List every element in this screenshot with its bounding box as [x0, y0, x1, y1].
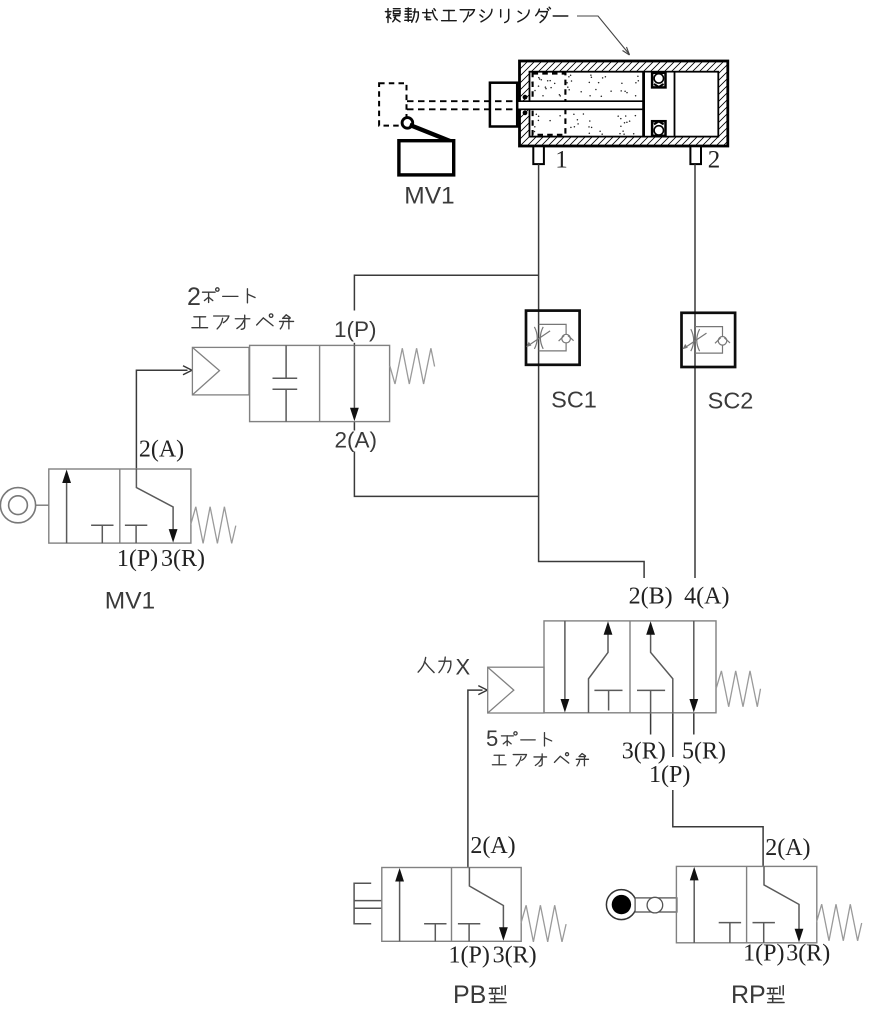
svg-text:4(A): 4(A): [684, 584, 729, 610]
2-port valve label エアオペ弁: [192, 317, 208, 328]
valve PB blocked port T2: [458, 923, 480, 925]
wire: 2-port valve 2(A) bypass bottom: [353, 422, 355, 431]
svg-text:1(P): 1(P): [449, 943, 490, 969]
svg-text:2(A): 2(A): [139, 437, 184, 463]
svg-text:1(P): 1(P): [117, 546, 158, 572]
svg-text:2: 2: [708, 147, 721, 174]
svg-text:1: 1: [555, 147, 568, 174]
svg-text:2(A): 2(A): [765, 835, 810, 861]
speed controller SC1 box: [526, 311, 580, 365]
limit switch MV1 lever: [410, 125, 450, 141]
svg-text:MV1: MV1: [105, 588, 155, 615]
valve RP blocked port T1: [719, 922, 741, 924]
valve PB return spring: [521, 905, 566, 942]
svg-text:2(A): 2(A): [335, 428, 378, 453]
valve MV1 body: [49, 469, 191, 543]
wire: MV1 valve 2(A) to 2-port pilot: [136, 370, 187, 469]
piston: [644, 73, 675, 136]
svg-text:1(P): 1(P): [649, 762, 690, 788]
2-port valve spring: [390, 348, 435, 384]
5-port right square: up flow path 1(P)->4(A): [651, 634, 673, 713]
wire: 5-port 3(R) stub: [650, 713, 652, 735]
2-port valve open position flow arrow: [353, 345, 355, 408]
5-port valve pilot: [488, 667, 544, 713]
rod coupling block: [490, 83, 517, 127]
phantom rod (dashed lines): [407, 100, 516, 102]
5-port left square: down flow arrow: [564, 621, 566, 700]
valve RP body: [676, 866, 816, 942]
svg-text:MV1: MV1: [404, 183, 454, 210]
label エアオペ弁: [492, 755, 506, 765]
svg-text:X: X: [456, 655, 471, 680]
SC1 check valve bypass loop: [539, 324, 567, 351]
5-port left square: up flow path to 2(B): [589, 634, 609, 713]
svg-text:2(A): 2(A): [470, 833, 515, 859]
svg-text:2: 2: [187, 283, 201, 311]
air stipple in left chamber: [531, 74, 639, 135]
valve RP exhaust path arrow down: [764, 866, 799, 929]
SC1 adjust arrow: [530, 331, 550, 345]
SC2 check valve bypass loop: [695, 327, 723, 354]
valve RP blocked port T2: [753, 922, 775, 924]
5-port right square: down flow arrow 5(R): [693, 621, 695, 700]
svg-text:SC1: SC1: [551, 387, 597, 413]
2-port valve body: [250, 345, 390, 421]
wire: cylinder port2 down through SC2 to 4(A): [694, 164, 696, 578]
piston seal gland top: [652, 73, 665, 88]
valve PB blocked port T1: [424, 923, 446, 925]
title label 複動式エアシリンダー: [385, 9, 400, 23]
5-port valve body: [544, 621, 716, 713]
RP valve roller-lever actuator: [606, 890, 636, 920]
limit switch MV1 pivot roller: [402, 118, 413, 129]
limit switch MV1 body: [399, 141, 454, 175]
svg-text:3(R): 3(R): [161, 546, 205, 572]
SC2 adjust arrow: [687, 333, 707, 347]
SC2 throttle arcs: [691, 329, 694, 351]
svg-text:RP: RP: [731, 981, 766, 1009]
valve RP left-square flow arrow up: [693, 878, 695, 942]
svg-text:3(R): 3(R): [493, 943, 537, 969]
leader line to cylinder: [577, 16, 630, 55]
svg-text:3(R): 3(R): [786, 941, 830, 967]
double-acting air cylinder outer shell: [520, 61, 728, 146]
cylinder port stub 1: [533, 146, 544, 164]
valve MV1 roller actuator: [0, 488, 35, 523]
phantom piston position (dashed): [533, 74, 566, 135]
svg-text:5(R): 5(R): [682, 739, 726, 765]
valve MV1 exhaust path arrow down: [136, 469, 173, 530]
cylinder wall hatching: [432, 58, 832, 150]
cylinder port stub 2: [690, 146, 701, 164]
wire: 5-port 1(P) down to RP valve 2(A): [672, 713, 674, 757]
5-port right square: blocked T: [637, 690, 665, 712]
2-port valve pilot: [192, 347, 249, 395]
wire: cylinder port1 down through SC1 to 2(B): [539, 164, 645, 578]
5-port left square: blocked T: [594, 690, 622, 710]
cylinder bore (inner cavity): [530, 72, 719, 137]
valve MV1 left-square flow arrow up: [66, 481, 68, 543]
label 入力X: [418, 657, 434, 672]
phantom rod-end plate (dashed square): [379, 83, 406, 125]
wire: 5-port 5(R) stub: [693, 713, 695, 735]
valve MV1 blocked port T2: [125, 524, 147, 526]
piston rod: [514, 102, 643, 109]
SC1 throttle arcs: [534, 327, 537, 349]
svg-text:1(P): 1(P): [743, 941, 784, 967]
speed controller SC2 box: [682, 313, 736, 367]
wire: 2-port valve 1(P) bypass top: [354, 275, 538, 310]
valve MV1 blocked port T1: [91, 524, 113, 526]
PB valve push button actuator: [354, 883, 382, 924]
rod seal dots: [523, 95, 528, 100]
valve RP return spring: [817, 904, 862, 941]
svg-text:1(P): 1(P): [334, 317, 377, 342]
valve PB exhaust path arrow down: [469, 868, 503, 929]
svg-text:SC2: SC2: [708, 388, 754, 414]
valve PB body: [382, 868, 521, 942]
wire: input X down to PB valve 2(A): [468, 690, 483, 867]
piston seal gland bottom: [652, 121, 665, 136]
svg-text:3(R): 3(R): [622, 739, 666, 765]
valve MV1 return spring: [191, 507, 236, 544]
valve PB left-square flow arrow up: [399, 880, 401, 942]
svg-text:5: 5: [486, 726, 498, 751]
svg-text:PB: PB: [453, 981, 486, 1009]
5-port valve spring: [716, 671, 760, 707]
2-port valve closed position symbol: [273, 345, 298, 421]
svg-text:2(B): 2(B): [629, 584, 673, 610]
